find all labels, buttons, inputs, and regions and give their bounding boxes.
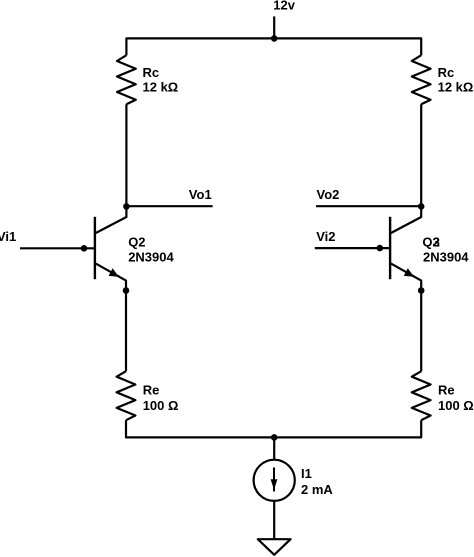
svg-text:Q2: Q2	[128, 234, 145, 249]
resistor Re right	[412, 371, 431, 420]
svg-text:12 kΩ: 12 kΩ	[438, 80, 474, 95]
wire top rail	[126, 38, 421, 55]
wire Q3 emitter to Re right	[420, 291, 422, 372]
svg-text:100 Ω: 100 Ω	[438, 398, 474, 413]
junction Vi2-base	[377, 245, 384, 252]
wire Q2 emitter to Re left	[125, 291, 127, 372]
transistor Q2	[95, 206, 127, 290]
wire supply stub	[273, 16, 275, 38]
label Vo1	[189, 187, 212, 202]
svg-text:2 mA: 2 mA	[301, 482, 333, 497]
svg-text:12 kΩ: 12 kΩ	[143, 80, 179, 95]
junction bottom center	[271, 434, 278, 441]
junction Q3 emitter	[418, 287, 425, 294]
svg-text:2N3904: 2N3904	[423, 249, 469, 264]
wire left rail Rc to Vo1	[125, 104, 127, 206]
node Vi1	[20, 247, 95, 249]
svg-text:Q: Q	[422, 234, 432, 249]
resistor Rc right	[412, 55, 431, 104]
junction Vi1-base	[81, 245, 88, 252]
svg-text:Vo2: Vo2	[317, 187, 340, 202]
current source I1	[254, 460, 295, 501]
wire bottom rail	[126, 420, 421, 437]
wire rail to current source	[273, 437, 275, 459]
ground	[258, 539, 291, 555]
junction Vo1	[123, 203, 130, 210]
label Re 100 Ohm (left)	[143, 383, 179, 413]
label Vi1	[0, 229, 16, 244]
wire right rail Rc to Vo2	[420, 104, 422, 206]
label Vi2	[316, 229, 335, 244]
resistor Re left	[117, 371, 136, 420]
svg-text:Rc: Rc	[143, 65, 160, 80]
svg-text:3: 3	[433, 234, 440, 249]
label Q3 2N3904 (digits 2 and 3 overprinted)	[422, 234, 469, 264]
svg-text:Re: Re	[143, 383, 160, 398]
junction Q2 emitter	[123, 287, 130, 294]
svg-text:Re: Re	[438, 383, 455, 398]
junction Vo2	[418, 203, 425, 210]
node Vo1	[126, 205, 212, 207]
node Vo2	[316, 205, 421, 207]
label Vo2	[317, 187, 340, 202]
svg-text:Vo1: Vo1	[189, 187, 212, 202]
svg-text:100 Ω: 100 Ω	[143, 398, 179, 413]
svg-text:2N3904: 2N3904	[128, 249, 174, 264]
transistor Q3	[390, 206, 421, 290]
resistor Rc left	[117, 55, 136, 104]
svg-text:Vi1: Vi1	[0, 229, 16, 244]
wire current source to ground	[273, 501, 275, 539]
node 12v supply label	[273, 0, 295, 13]
label I1 2 mA	[301, 466, 333, 497]
svg-text:12v: 12v	[273, 0, 295, 13]
label Rc 12 kOhm (right)	[438, 65, 474, 94]
svg-text:Rc: Rc	[438, 65, 455, 80]
label Re 100 Ohm (right)	[438, 383, 474, 413]
label Rc 12 kOhm (left)	[143, 65, 179, 94]
svg-text:Vi2: Vi2	[316, 229, 335, 244]
label Q2 2N3904	[128, 234, 174, 264]
junction top center	[271, 35, 278, 42]
svg-text:I1: I1	[301, 466, 312, 481]
node Vi2	[315, 247, 390, 249]
